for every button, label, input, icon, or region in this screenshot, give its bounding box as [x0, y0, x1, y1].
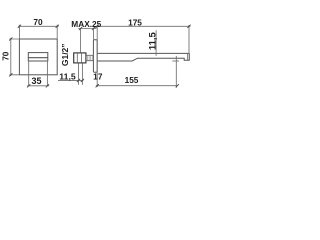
svg-text:70: 70	[1, 51, 11, 61]
svg-text:35: 35	[31, 76, 41, 86]
svg-text:11,5: 11,5	[148, 32, 159, 51]
svg-text:MAX.25: MAX.25	[71, 19, 101, 29]
svg-text:70: 70	[33, 17, 43, 27]
svg-text:175: 175	[128, 18, 142, 28]
svg-text:G1/2”: G1/2”	[60, 43, 70, 66]
svg-text:155: 155	[125, 75, 139, 85]
svg-text:11,5: 11,5	[59, 71, 76, 81]
svg-text:7: 7	[98, 72, 103, 82]
